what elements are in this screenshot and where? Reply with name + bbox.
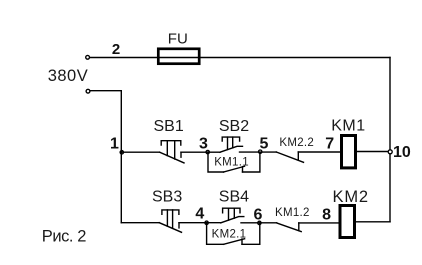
svg-text:5: 5 [259,135,268,152]
svg-text:KM1: KM1 [331,118,365,135]
svg-text:2: 2 [112,41,120,58]
svg-text:KM2.1: KM2.1 [212,229,247,241]
svg-text:KM2: KM2 [333,188,369,206]
svg-text:4: 4 [195,205,204,222]
svg-text:SB4: SB4 [219,189,249,206]
svg-text:380V: 380V [48,67,89,85]
svg-text:SB1: SB1 [153,118,183,135]
svg-text:8: 8 [322,206,331,223]
svg-text:7: 7 [325,135,334,152]
svg-text:SB2: SB2 [219,118,249,135]
svg-text:1: 1 [110,136,119,153]
svg-text:10: 10 [393,144,411,161]
svg-text:6: 6 [253,206,262,223]
svg-text:SB3: SB3 [152,189,182,206]
svg-text:3: 3 [199,136,208,153]
svg-text:KM2.2: KM2.2 [279,137,314,149]
svg-text:Рис. 2: Рис. 2 [42,228,86,246]
svg-text:KM1.1: KM1.1 [214,156,249,168]
svg-text:FU: FU [168,31,188,48]
svg-text:KM1.2: KM1.2 [275,207,310,219]
